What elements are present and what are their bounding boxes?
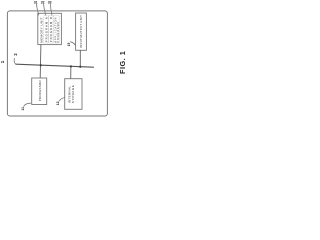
svg-text:32: 32 [41,0,45,4]
leader to 15 [70,42,75,45]
svg-text:15: 15 [67,43,71,47]
dashed program box 31 [44,16,48,43]
svg-text:PROCESSOR: PROCESSOR [38,80,42,101]
leader to 31 [36,4,38,15]
leader to 12 [59,98,65,102]
svg-text:12: 12 [56,101,60,105]
svg-text:FIG. 1: FIG. 1 [118,51,127,74]
svg-text:MEMORY UNIT: MEMORY UNIT [40,17,44,43]
dashed program box 32 [49,16,53,43]
svg-text:2: 2 [13,53,18,56]
svg-text:STORAGE: STORAGE [71,85,75,103]
outer device box 1 [7,11,107,116]
junction dot C [70,65,72,67]
svg-text:33: 33 [48,0,52,4]
memory box 3 [38,13,62,44]
leader to 33 [50,4,52,15]
junction dot A [40,64,42,66]
processor box 11 [32,78,47,105]
svg-text:31: 31 [34,0,38,4]
input/output unit box 15 [76,13,87,50]
dashed program box 33 [53,16,59,43]
bus line 2 [16,64,94,67]
svg-text:INPUT/OUTPUT UNIT: INPUT/OUTPUT UNIT [79,15,83,48]
wire bus to internal storage [70,66,72,78]
svg-text:PROGRAM B: PROGRAM B [49,16,53,42]
wire memory-processor [39,45,42,78]
svg-text:PROGRAMS: PROGRAMS [57,21,60,42]
svg-text:PROGRAM A: PROGRAM A [44,16,48,42]
svg-text:11: 11 [21,107,25,111]
leader to 11 [24,103,31,106]
svg-text:1: 1 [0,60,5,63]
wire i/o unit to bus [79,50,81,66]
leader to 32 [44,4,46,15]
junction dot B [79,66,81,68]
leader to bus [14,58,16,64]
internal storage box 12 [65,79,82,110]
